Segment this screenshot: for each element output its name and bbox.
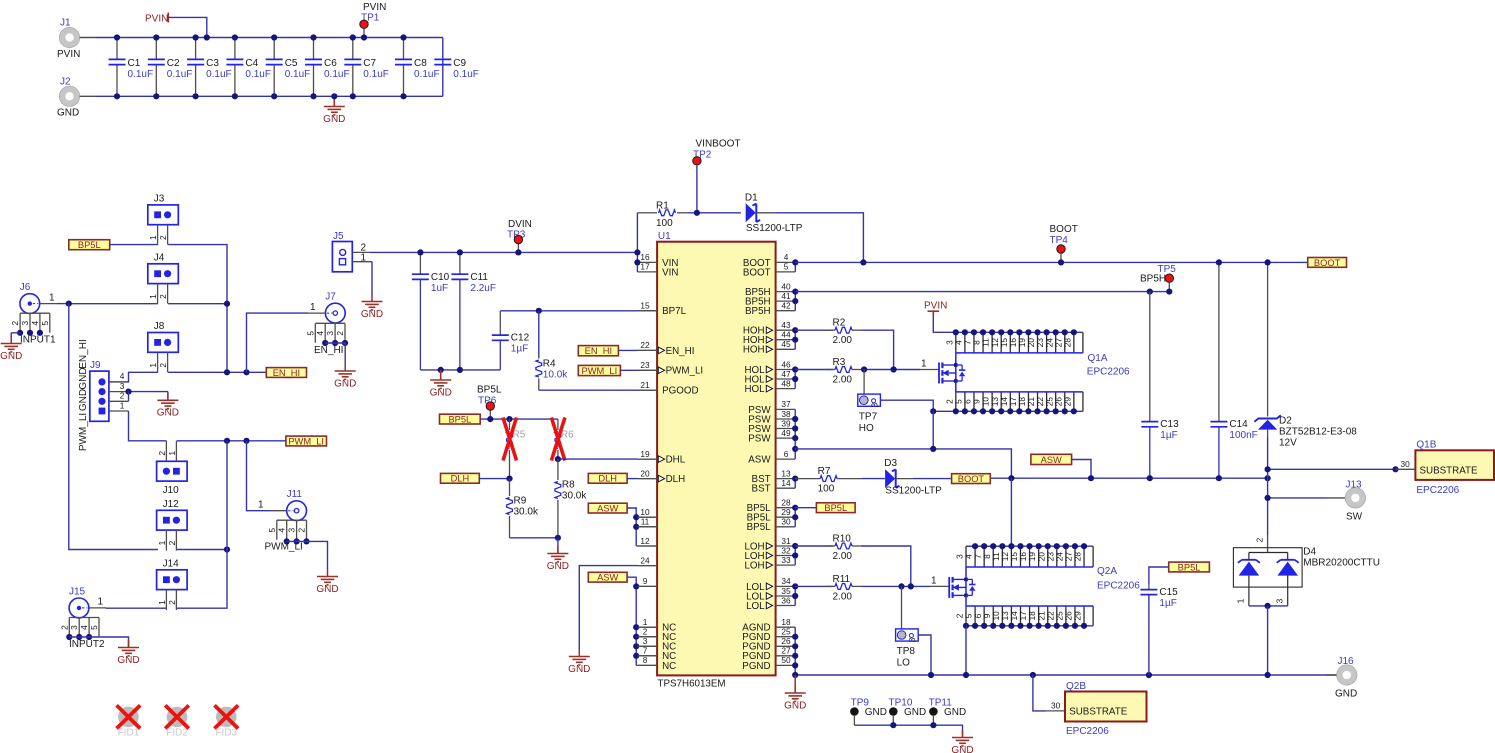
svg-text:2: 2 xyxy=(157,451,167,456)
svg-text:43: 43 xyxy=(781,320,791,330)
svg-text:J15: J15 xyxy=(69,586,86,597)
wire ASW to pin 9 and NC pins xyxy=(627,577,657,665)
net label BP5L (TP6) xyxy=(440,414,481,424)
svg-text:FID3: FID3 xyxy=(215,727,237,738)
junction C3 top xyxy=(193,34,199,40)
wire TP8 to GND rail xyxy=(918,635,931,675)
svg-text:5: 5 xyxy=(89,625,99,630)
net label BP5L (C15) xyxy=(1169,562,1210,572)
transistor Q1A EPC2206 drain pin row xyxy=(944,329,1083,353)
capacitor C15 xyxy=(1140,567,1178,675)
svg-text:1: 1 xyxy=(310,302,316,313)
svg-text:30.0k: 30.0k xyxy=(514,507,539,518)
svg-text:GND: GND xyxy=(904,707,926,718)
svg-text:TPS7H6013EM: TPS7H6013EM xyxy=(658,679,726,690)
transistor Q2A MOSFET symbol xyxy=(930,567,976,606)
svg-text:14: 14 xyxy=(781,478,791,488)
svg-text:R3: R3 xyxy=(833,357,846,368)
junction J4 row / column xyxy=(224,301,230,307)
junction R6 bottom xyxy=(555,456,561,462)
junction pin 50 xyxy=(792,662,798,668)
svg-text:2: 2 xyxy=(158,363,168,368)
test point TP1 xyxy=(360,2,387,38)
svg-text:GND: GND xyxy=(361,309,383,320)
wire J6 column down to J12 row xyxy=(69,304,158,550)
wire net ASW lower rail xyxy=(990,477,1267,479)
svg-text:GND: GND xyxy=(78,389,89,411)
svg-text:BP5L: BP5L xyxy=(1178,562,1201,572)
ground symbol (PGND) xyxy=(784,675,806,711)
connector J11 shield pins xyxy=(265,520,310,552)
ground symbol (J15) xyxy=(117,640,139,666)
junction DVIN at U1 xyxy=(634,249,640,255)
svg-text:3: 3 xyxy=(69,625,79,630)
svg-text:SW: SW xyxy=(1346,512,1363,523)
ground symbol (pin 24) xyxy=(568,649,590,675)
junction pin 9 xyxy=(633,583,639,589)
wire J7 shield to GND xyxy=(325,343,345,364)
jumper J14 xyxy=(157,558,188,610)
svg-text:GND: GND xyxy=(430,387,452,398)
wire J11 shield to GND xyxy=(287,541,328,569)
svg-text:2: 2 xyxy=(158,294,168,299)
diode D1 SS1200-LTP xyxy=(745,192,803,234)
test point TP8 xyxy=(896,629,919,669)
svg-text:PGND: PGND xyxy=(742,661,770,672)
svg-text:24: 24 xyxy=(640,555,650,565)
U1 right pin stubs and names xyxy=(742,252,795,672)
resistor R9 xyxy=(507,479,539,538)
svg-text:PWM_LI: PWM_LI xyxy=(582,366,618,376)
junction GND bypass xyxy=(438,367,444,373)
svg-text:LOL: LOL xyxy=(746,601,765,612)
svg-text:C14: C14 xyxy=(1229,419,1248,430)
junction Q2B branch xyxy=(1030,672,1036,678)
svg-text:EPC2206: EPC2206 xyxy=(1087,367,1130,378)
net label ASW (pin 9) xyxy=(588,572,627,582)
junction pin NC1 xyxy=(633,624,639,630)
wire PSW pins tie xyxy=(794,409,796,459)
svg-text:49: 49 xyxy=(781,428,791,438)
wire J7 pin1 to EN_HI column xyxy=(247,313,309,372)
header J5 xyxy=(332,231,372,272)
svg-text:36: 36 xyxy=(781,595,791,605)
resistor R11 xyxy=(795,574,861,603)
svg-text:R10: R10 xyxy=(833,534,852,545)
wire PWM_LI column down to J14 xyxy=(177,441,227,608)
junction ASW drop 1 xyxy=(1008,475,1014,481)
net label DLH (left) xyxy=(441,473,480,483)
wire ASW to pins 10,11,12 xyxy=(627,508,657,546)
svg-text:50: 50 xyxy=(781,655,791,665)
svg-text:2: 2 xyxy=(1254,537,1264,542)
junction pin 41 xyxy=(792,298,798,304)
svg-text:NC: NC xyxy=(662,661,676,672)
ground symbol (J6) xyxy=(0,333,22,362)
capacitor C3 xyxy=(187,38,232,97)
connector J7 xyxy=(308,292,345,323)
wire net SW vertical xyxy=(1267,469,1269,535)
resistor R7 xyxy=(795,466,862,495)
junction C4 top xyxy=(232,34,238,40)
transistor Q1A source pin row xyxy=(933,392,1083,415)
resistor R4 xyxy=(536,311,568,390)
wire Q1A source to ASW rail xyxy=(932,411,934,449)
test point TP11 xyxy=(929,697,967,725)
svg-text:1: 1 xyxy=(157,540,167,545)
jumper J8 xyxy=(148,321,179,372)
svg-text:0.1uF: 0.1uF xyxy=(167,69,193,80)
junction PVIN drop xyxy=(204,34,210,40)
junction pin 44 xyxy=(792,337,798,343)
junction C5 bottom xyxy=(271,93,277,99)
svg-text:8: 8 xyxy=(643,655,648,665)
wire TP7 drop xyxy=(863,370,865,395)
junction C15 / GND rail xyxy=(1146,672,1152,678)
svg-text:EN_HI: EN_HI xyxy=(78,339,89,368)
svg-text:BOOT: BOOT xyxy=(743,267,771,278)
connector J16 xyxy=(1327,656,1358,700)
svg-text:45: 45 xyxy=(781,339,791,349)
junction TP10 xyxy=(890,722,896,728)
wire J13 branch xyxy=(1268,497,1327,499)
wire J9.1 to PWM_LI row xyxy=(129,411,167,441)
svg-text:1: 1 xyxy=(120,400,125,410)
wire D4 cathodes join xyxy=(1249,605,1288,607)
svg-text:1: 1 xyxy=(157,600,167,605)
capacitor C14 xyxy=(1210,262,1257,478)
capacitor C11 xyxy=(451,252,496,370)
svg-text:1µF: 1µF xyxy=(511,344,528,355)
wire BP5L pins tie xyxy=(794,508,796,527)
svg-text:3: 3 xyxy=(869,402,879,407)
svg-text:22: 22 xyxy=(640,340,650,350)
svg-text:C15: C15 xyxy=(1159,587,1178,598)
junction Q1A source node xyxy=(930,408,936,414)
junction ASW / Q1A source xyxy=(930,446,936,452)
junction C13 top xyxy=(1147,289,1153,295)
junction pin NC3 xyxy=(633,643,639,649)
svg-text:EPC2206: EPC2206 xyxy=(1097,581,1140,592)
svg-text:DLH: DLH xyxy=(666,474,686,485)
svg-text:5: 5 xyxy=(305,331,315,336)
svg-text:VINBOOT: VINBOOT xyxy=(696,139,741,150)
svg-text:46: 46 xyxy=(781,359,791,369)
svg-text:GND: GND xyxy=(784,700,806,711)
wire J15 shield to GND xyxy=(69,637,128,648)
svg-text:C8: C8 xyxy=(414,58,427,69)
svg-text:1: 1 xyxy=(167,451,177,456)
wire net ASW rail xyxy=(795,449,1011,478)
svg-text:GND: GND xyxy=(78,367,89,389)
wire J9.3 to GND xyxy=(129,391,168,393)
svg-text:ASW: ASW xyxy=(597,573,618,583)
svg-text:0.1uF: 0.1uF xyxy=(414,69,440,80)
wire DLH to R5/R9 xyxy=(479,478,509,480)
diode D3 SS1200-LTP xyxy=(862,458,942,497)
svg-text:BP7L: BP7L xyxy=(662,306,687,317)
fiducial FID3 xyxy=(215,705,239,738)
junction J6 node xyxy=(66,301,72,307)
junction TP7 branch xyxy=(861,366,867,372)
wire R2 to gate node xyxy=(861,330,894,369)
svg-text:C7: C7 xyxy=(363,58,376,69)
wire PWM_LI to pin 23 xyxy=(620,369,657,371)
wire Q2A source to GND rail xyxy=(965,626,967,675)
svg-text:ASW: ASW xyxy=(1041,455,1062,465)
junction C2 top xyxy=(153,34,159,40)
svg-text:20: 20 xyxy=(640,468,650,478)
svg-text:SS1200-LTP: SS1200-LTP xyxy=(746,223,803,234)
svg-text:EN_HI: EN_HI xyxy=(585,346,612,356)
net label BP5L (J3) xyxy=(69,240,110,250)
svg-text:3: 3 xyxy=(287,528,297,533)
resistor R6 (DNP) xyxy=(551,418,574,461)
svg-text:4: 4 xyxy=(30,321,40,326)
junction pin ASW exit xyxy=(792,446,798,452)
wire DLH to pin 20 xyxy=(627,478,657,480)
svg-text:MBR20200CTTU: MBR20200CTTU xyxy=(1303,557,1380,568)
svg-text:R8: R8 xyxy=(562,480,575,491)
svg-text:PVIN: PVIN xyxy=(145,14,168,25)
wire net BOOT rail xyxy=(795,261,1307,263)
jumper J3 xyxy=(148,193,179,244)
junction D4 / GND rail xyxy=(1265,672,1271,678)
svg-text:DHL: DHL xyxy=(666,455,686,466)
junction D4 bottom xyxy=(1265,603,1271,609)
capacitor C4 xyxy=(226,38,271,97)
wire R9/R8 bottom to GND xyxy=(510,537,558,539)
junction C11 top xyxy=(457,249,463,255)
wire LOH pins tie xyxy=(794,546,796,565)
junction pin 27 xyxy=(792,653,798,659)
wire BP5L row xyxy=(480,418,558,420)
junction pin 13 xyxy=(792,476,798,482)
junction pin 34 xyxy=(792,583,798,589)
wire J11 pin1 to PWM_LI column xyxy=(247,441,271,511)
svg-text:7: 7 xyxy=(643,646,648,656)
svg-text:2: 2 xyxy=(120,391,125,401)
junction pin 28 xyxy=(792,505,798,511)
junction C6 top xyxy=(310,34,316,40)
svg-text:Q2A: Q2A xyxy=(1097,566,1117,577)
junction pin 16 xyxy=(634,259,640,265)
svg-text:30.0k: 30.0k xyxy=(562,491,587,502)
svg-text:DLH: DLH xyxy=(451,474,470,484)
ground symbol (J5) xyxy=(361,294,383,320)
test point TP7 xyxy=(858,394,881,434)
junction EN_HI column 2 xyxy=(243,369,249,375)
svg-text:2.00: 2.00 xyxy=(833,591,853,602)
svg-text:R6: R6 xyxy=(561,430,574,441)
svg-text:12: 12 xyxy=(640,536,650,546)
svg-text:Q2B: Q2B xyxy=(1066,681,1086,692)
svg-text:5: 5 xyxy=(40,321,50,326)
svg-text:1: 1 xyxy=(1236,598,1246,603)
capacitor C10 xyxy=(412,252,450,370)
svg-text:2: 2 xyxy=(167,540,177,545)
svg-text:C1: C1 xyxy=(128,58,141,69)
svg-text:LO: LO xyxy=(897,658,911,669)
wire TP7 to Q1A source node xyxy=(880,400,933,411)
wire HOH pins tie xyxy=(794,330,796,349)
svg-text:0.1uF: 0.1uF xyxy=(206,69,232,80)
junction pin 32 xyxy=(792,552,798,558)
resistor R1 xyxy=(637,200,688,229)
svg-text:BOOT: BOOT xyxy=(1050,224,1078,235)
svg-text:PVIN: PVIN xyxy=(924,301,947,312)
wire J15 pin1 to J14.1 xyxy=(106,607,166,609)
svg-text:BOOT: BOOT xyxy=(958,474,985,484)
junction TP2 xyxy=(694,210,700,216)
svg-text:J4: J4 xyxy=(154,252,165,263)
svg-text:EN_HI: EN_HI xyxy=(666,346,695,357)
svg-text:BOOT: BOOT xyxy=(1314,258,1341,268)
svg-text:R1: R1 xyxy=(656,200,669,211)
svg-text:GND: GND xyxy=(547,561,569,572)
svg-text:BZT52B12-E3-08: BZT52B12-E3-08 xyxy=(1279,426,1357,437)
capacitor C12 xyxy=(492,311,530,370)
svg-text:3: 3 xyxy=(907,637,917,642)
svg-text:C10: C10 xyxy=(431,272,450,283)
junction R2 branch xyxy=(891,366,897,372)
svg-text:9: 9 xyxy=(643,576,648,586)
svg-text:4: 4 xyxy=(120,371,125,381)
svg-text:28: 28 xyxy=(781,498,791,508)
svg-text:D1: D1 xyxy=(745,192,758,203)
fiducial FID1 xyxy=(117,705,141,738)
svg-text:28: 28 xyxy=(1073,552,1083,562)
svg-text:ASW: ASW xyxy=(748,455,771,466)
junction J12 column xyxy=(224,546,230,552)
svg-text:PWM_LI: PWM_LI xyxy=(78,413,89,451)
wire J9.2 up xyxy=(128,392,130,402)
jumper J10 xyxy=(157,441,188,496)
wire TP8 drop xyxy=(901,586,903,629)
svg-text:D2: D2 xyxy=(1279,415,1292,426)
svg-text:4: 4 xyxy=(277,528,287,533)
junction C3 bottom xyxy=(193,93,199,99)
capacitor C6 xyxy=(305,38,350,97)
svg-text:PWM_LI: PWM_LI xyxy=(288,436,324,446)
junction C14 bottom xyxy=(1216,475,1222,481)
wire J12.2 to column xyxy=(177,549,227,551)
wire R3 to gate xyxy=(861,369,920,371)
junction SUBSTRATE branch xyxy=(1265,466,1271,472)
svg-text:R2: R2 xyxy=(833,318,846,329)
svg-text:41: 41 xyxy=(781,291,791,301)
net label BP5L (pin 28) xyxy=(816,503,855,513)
svg-text:3: 3 xyxy=(120,381,125,391)
svg-text:38: 38 xyxy=(781,409,791,419)
test point TP2 xyxy=(693,139,741,213)
svg-text:C4: C4 xyxy=(245,58,258,69)
junction pin NC7 xyxy=(633,653,639,659)
junction ASW at D2 xyxy=(1265,475,1271,481)
wire R11 to gate xyxy=(861,585,930,587)
junction pin NC2 xyxy=(633,634,639,640)
junction pin 49 xyxy=(792,435,798,441)
junction TP11 xyxy=(930,722,936,728)
wire EN_HI to pin 22 xyxy=(618,349,657,351)
test point TP4 xyxy=(1050,224,1078,263)
svg-text:GND: GND xyxy=(316,584,338,595)
svg-text:33: 33 xyxy=(781,555,791,565)
junction C2 bottom xyxy=(153,93,159,99)
header J9 xyxy=(78,339,129,451)
svg-text:Q1A: Q1A xyxy=(1088,353,1108,364)
junction GND cap bank xyxy=(331,93,337,99)
connector J15 xyxy=(69,586,106,617)
junction TP1 xyxy=(361,34,367,40)
wire D4 to GND rail xyxy=(1267,606,1269,675)
svg-text:5: 5 xyxy=(267,528,277,533)
svg-text:2: 2 xyxy=(335,331,345,336)
svg-text:1µF: 1µF xyxy=(1159,598,1176,609)
svg-text:39: 39 xyxy=(781,418,791,428)
svg-text:15: 15 xyxy=(640,301,650,311)
svg-text:BP5L: BP5L xyxy=(78,240,101,250)
test point TP5 xyxy=(1140,264,1176,292)
junction D1 branch xyxy=(860,259,866,265)
wire ASW label to lower rail xyxy=(1072,460,1091,479)
svg-text:5: 5 xyxy=(784,262,789,272)
wire net BP7L to pin 15 xyxy=(500,310,657,312)
capacitor C13 xyxy=(1141,292,1179,479)
wire R6 to pin 19 DHL xyxy=(558,458,657,460)
svg-text:LOH: LOH xyxy=(744,561,764,572)
svg-text:PWM_LI: PWM_LI xyxy=(666,366,704,377)
net label DLH (pin 20) xyxy=(588,473,627,483)
svg-text:EN_HI: EN_HI xyxy=(273,368,300,378)
wire LOL pins tie xyxy=(794,586,796,605)
junction PWM_LI column 1 xyxy=(224,438,230,444)
svg-text:ASW: ASW xyxy=(597,504,618,514)
ground symbol (J11) xyxy=(316,569,338,595)
svg-text:J6: J6 xyxy=(20,282,31,293)
svg-text:INPUT1: INPUT1 xyxy=(20,335,56,346)
wire HOL pins tie xyxy=(794,370,796,389)
svg-text:C6: C6 xyxy=(324,58,337,69)
junction pin 46 xyxy=(792,366,798,372)
capacitor C2 xyxy=(148,38,193,97)
junction R9 top xyxy=(506,476,512,482)
svg-text:TP4: TP4 xyxy=(1050,235,1069,246)
svg-text:EPC2206: EPC2206 xyxy=(1416,485,1459,496)
wire pin 24 to GND xyxy=(579,566,657,649)
svg-text:J13: J13 xyxy=(1346,479,1363,490)
svg-text:J8: J8 xyxy=(154,321,165,332)
net label EN_HI (left) xyxy=(266,368,306,378)
junction C8 bottom xyxy=(400,93,406,99)
svg-text:13: 13 xyxy=(781,468,791,478)
junction pin 43 xyxy=(792,327,798,333)
svg-text:J16: J16 xyxy=(1338,656,1355,667)
svg-text:GND: GND xyxy=(865,707,887,718)
wire R4 to pin 21 PGOOD xyxy=(539,389,657,391)
svg-text:2: 2 xyxy=(167,600,177,605)
junction pin 10 xyxy=(633,514,639,520)
ground symbol (TP9-11) xyxy=(951,730,973,753)
svg-text:BP5L: BP5L xyxy=(448,415,471,425)
junction C4 bottom xyxy=(232,93,238,99)
svg-text:4: 4 xyxy=(784,252,789,262)
wire BP5H pins tie xyxy=(794,292,796,311)
wire PVIN to Q1A drain row xyxy=(933,317,956,333)
wire D3 to BOOT label xyxy=(913,478,952,480)
svg-text:GND: GND xyxy=(157,408,179,419)
svg-text:R5: R5 xyxy=(513,430,526,441)
